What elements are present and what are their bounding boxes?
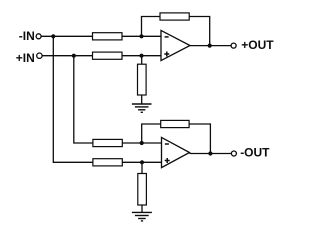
node U2 output xyxy=(208,151,212,155)
U2 minus mark xyxy=(165,143,169,145)
terminal -IN xyxy=(36,34,41,39)
terminal -OUT xyxy=(231,151,236,156)
terminal +IN xyxy=(37,53,42,58)
wire U1 output xyxy=(190,45,231,47)
wire +IN to R2 xyxy=(42,55,92,57)
resistor R3 feedback U1 xyxy=(160,13,189,20)
svg-text:-IN: -IN xyxy=(19,29,35,43)
wire R1 to op-amp U1 inverting input xyxy=(122,35,161,37)
U1 minus mark xyxy=(165,36,169,38)
wire +IN branch down to U2 inverting row xyxy=(74,56,93,143)
node U1 inverting input xyxy=(139,34,143,38)
wire U2 feedback riser left xyxy=(142,124,161,143)
wire U1 input node to ground resistor R4 xyxy=(141,56,143,64)
resistor R8 xyxy=(138,174,147,206)
resistor R5 xyxy=(93,139,122,146)
U2 plus mark xyxy=(165,158,170,163)
resistor R4 xyxy=(138,64,147,95)
resistor R6 xyxy=(93,159,122,166)
resistor R2 xyxy=(93,52,123,59)
resistor R1 xyxy=(93,33,123,40)
svg-text:-OUT: -OUT xyxy=(240,146,270,160)
node on -IN line xyxy=(51,34,55,38)
U1 plus mark xyxy=(164,52,169,57)
wire -IN to R1 xyxy=(41,35,92,37)
wire R2 to op-amp U1 non-inverting input xyxy=(122,55,161,57)
ground G1 xyxy=(132,104,152,112)
op-amp U2 xyxy=(162,137,190,167)
terminal +OUT xyxy=(231,43,236,48)
node on +IN line xyxy=(72,54,76,58)
svg-text:+OUT: +OUT xyxy=(241,38,274,52)
node U1 non-inverting input xyxy=(139,54,143,58)
node U2 inverting input xyxy=(140,141,144,145)
wire -IN branch down to U2 non-inverting row xyxy=(53,36,93,162)
wire U2 output xyxy=(190,153,232,155)
wire R4 to ground xyxy=(141,95,143,104)
wire U2 input node to ground resistor R8 xyxy=(141,162,143,173)
node U2 non-inverting input xyxy=(140,160,144,164)
ground G2 xyxy=(132,212,152,221)
wire R8 to ground xyxy=(141,205,143,212)
svg-text:+IN: +IN xyxy=(16,51,35,65)
node U1 output xyxy=(208,44,212,48)
wire R6 to op-amp U2 non-inverting input xyxy=(122,161,161,163)
wire R3 to U1 output xyxy=(189,17,210,46)
wire R5 to op-amp U2 inverting input xyxy=(122,142,161,144)
resistor R7 feedback U2 xyxy=(161,120,189,127)
op-amp U1 xyxy=(161,30,190,60)
wire U1 feedback riser left xyxy=(142,17,161,37)
wire R7 to U2 output xyxy=(189,124,210,154)
